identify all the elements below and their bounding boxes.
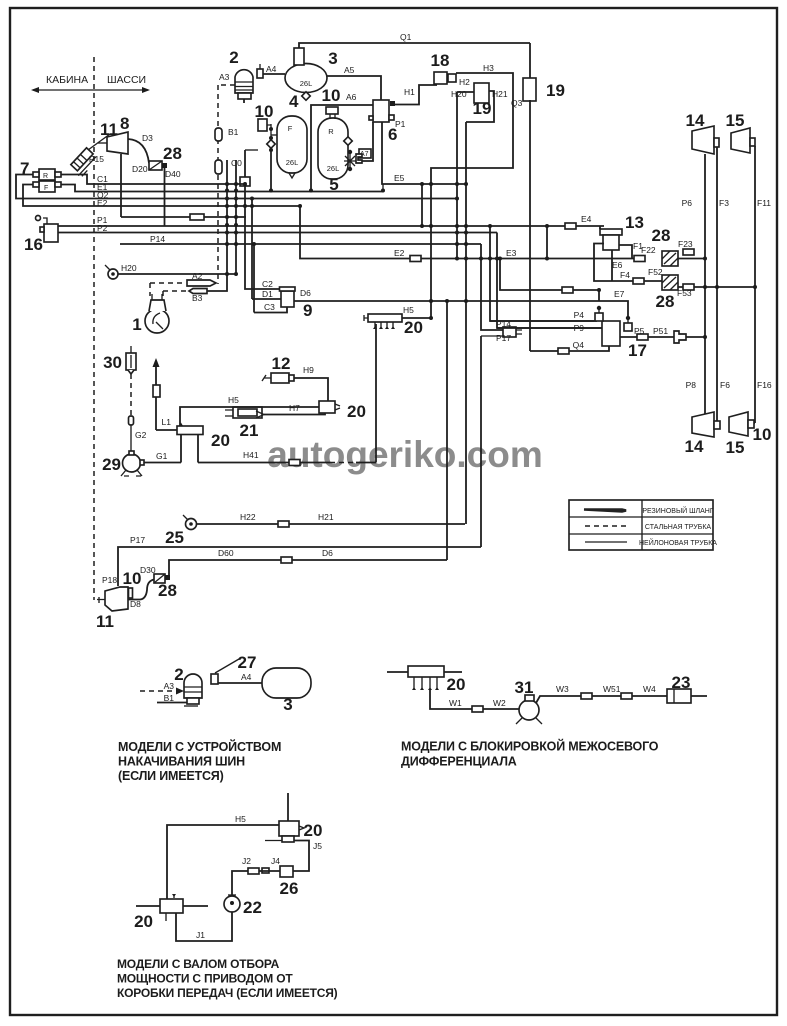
svg-text:J5: J5 [313,841,322,851]
svg-text:J4: J4 [271,856,280,866]
svg-text:19: 19 [546,81,565,100]
svg-text:H22: H22 [240,512,256,522]
svg-text:28: 28 [652,226,671,245]
svg-text:C3: C3 [264,302,275,312]
svg-text:10: 10 [255,102,274,121]
svg-text:R: R [43,173,48,180]
svg-text:(ЕСЛИ ИМЕЕТСЯ): (ЕСЛИ ИМЕЕТСЯ) [118,769,224,783]
svg-text:3: 3 [283,695,292,714]
svg-text:12: 12 [272,354,291,373]
svg-text:13: 13 [625,213,644,232]
svg-text:11: 11 [96,612,114,631]
svg-text:F4: F4 [620,270,630,280]
svg-text:P17: P17 [496,333,511,343]
svg-text:W51: W51 [603,684,621,694]
svg-text:F23: F23 [678,239,693,249]
svg-text:E6: E6 [612,260,623,270]
svg-text:W2: W2 [493,698,506,708]
svg-text:E2: E2 [394,248,405,258]
svg-text:НАКАЧИВАНИЯ ШИН: НАКАЧИВАНИЯ ШИН [118,755,245,769]
svg-text:1: 1 [132,315,141,334]
svg-text:Q1: Q1 [400,32,412,42]
svg-text:H2: H2 [459,77,470,87]
svg-text:G1: G1 [156,451,168,461]
svg-text:14: 14 [685,437,704,456]
svg-text:НЕЙЛОНОВАЯ ТРУБКА: НЕЙЛОНОВАЯ ТРУБКА [639,538,717,547]
svg-text:H21: H21 [318,512,334,522]
svg-text:H20: H20 [451,89,467,99]
svg-text:15: 15 [726,111,745,130]
svg-text:МОДЕЛИ С БЛОКИРОВКОЙ МЕЖОСЕВОГ: МОДЕЛИ С БЛОКИРОВКОЙ МЕЖОСЕВОГО [401,739,659,754]
svg-text:D20: D20 [132,164,148,174]
svg-text:МОДЕЛИ С УСТРОЙСТВОМ: МОДЕЛИ С УСТРОЙСТВОМ [118,739,281,754]
svg-text:H7: H7 [289,403,300,413]
svg-text:23: 23 [672,673,691,692]
svg-text:30: 30 [103,353,122,372]
svg-text:6: 6 [388,125,397,144]
svg-text:МОЩНОСТИ С ПРИВОДОМ ОТ: МОЩНОСТИ С ПРИВОДОМ ОТ [117,972,293,986]
svg-text:P9: P9 [574,323,585,333]
svg-text:P4: P4 [574,310,585,320]
svg-text:F22: F22 [641,245,656,255]
svg-text:КОРОБКИ ПЕРЕДАЧ (ЕСЛИ ИМЕЕТСЯ): КОРОБКИ ПЕРЕДАЧ (ЕСЛИ ИМЕЕТСЯ) [117,986,338,1000]
svg-text:ДИФФЕРЕНЦИАЛА: ДИФФЕРЕНЦИАЛА [401,755,517,769]
svg-text:10: 10 [753,425,772,444]
svg-text:B1: B1 [164,693,175,703]
svg-text:28: 28 [163,144,182,163]
svg-text:D8: D8 [130,599,141,609]
svg-text:25: 25 [165,528,184,547]
svg-text:20: 20 [347,402,366,421]
svg-text:29: 29 [102,455,121,474]
svg-text:H5: H5 [403,305,414,315]
svg-text:2: 2 [229,48,238,67]
svg-text:F: F [288,124,293,133]
svg-text:G2: G2 [135,430,147,440]
svg-text:26: 26 [280,879,299,898]
svg-text:A5: A5 [344,65,355,75]
svg-text:W4: W4 [643,684,656,694]
svg-text:A3: A3 [219,72,230,82]
svg-text:28: 28 [656,292,675,311]
svg-text:P8: P8 [686,380,697,390]
svg-text:МОДЕЛИ С ВАЛОМ ОТБОРА: МОДЕЛИ С ВАЛОМ ОТБОРА [117,957,280,971]
svg-text:A6: A6 [346,92,357,102]
svg-text:E4: E4 [581,214,592,224]
svg-text:26L: 26L [327,164,340,173]
svg-text:20: 20 [211,431,230,450]
svg-text:P18: P18 [102,575,117,585]
svg-text:A4: A4 [266,64,277,74]
svg-text:РЕЗИНОВЫЙ ШЛАНГ: РЕЗИНОВЫЙ ШЛАНГ [642,506,714,515]
svg-text:H21: H21 [492,89,508,99]
svg-text:F: F [44,185,48,192]
svg-text:F53: F53 [677,288,692,298]
svg-text:D60: D60 [218,548,234,558]
svg-text:18: 18 [431,51,450,70]
svg-text:2: 2 [174,665,183,684]
svg-text:F16: F16 [757,380,772,390]
svg-text:Q3: Q3 [511,98,523,108]
svg-text:autogeriko.com: autogeriko.com [267,434,543,475]
svg-text:20: 20 [304,821,323,840]
svg-text:17: 17 [628,341,647,360]
svg-text:L1: L1 [162,417,172,427]
svg-text:28: 28 [158,581,177,600]
svg-text:D40: D40 [165,169,181,179]
svg-text:31: 31 [515,678,534,697]
svg-text:A3: A3 [164,681,175,691]
svg-text:СТАЛЬНАЯ ТРУБКА: СТАЛЬНАЯ ТРУБКА [645,524,712,531]
svg-text:F3: F3 [719,198,729,208]
svg-text:B1: B1 [228,127,239,137]
svg-text:14: 14 [686,111,705,130]
svg-text:26L: 26L [300,79,313,88]
svg-text:F11: F11 [757,198,771,208]
svg-text:H1: H1 [404,87,415,97]
svg-text:16: 16 [24,235,43,254]
svg-text:4: 4 [289,92,299,111]
svg-text:P2: P2 [97,223,108,233]
svg-text:20: 20 [404,318,423,337]
svg-text:F52: F52 [648,267,663,277]
svg-text:22: 22 [243,898,262,917]
svg-text:H3: H3 [483,63,494,73]
svg-text:20: 20 [447,675,466,694]
svg-text:D6: D6 [300,288,311,298]
svg-text:E7: E7 [614,289,625,299]
svg-text:C2: C2 [262,279,273,289]
svg-text:15: 15 [726,438,745,457]
svg-text:20: 20 [134,912,153,931]
svg-text:E5: E5 [394,173,405,183]
svg-text:F6: F6 [720,380,730,390]
svg-text:J1: J1 [196,930,205,940]
svg-text:W1: W1 [449,698,462,708]
svg-text:H5: H5 [235,814,246,824]
svg-text:Q4: Q4 [573,340,585,350]
svg-text:11: 11 [100,120,118,139]
svg-text:10: 10 [123,569,142,588]
svg-text:W3: W3 [556,684,569,694]
svg-text:E3: E3 [506,248,517,258]
svg-text:P14: P14 [150,234,165,244]
svg-text:R: R [328,127,334,136]
svg-text:H20: H20 [121,263,137,273]
svg-text:P17: P17 [130,535,145,545]
svg-text:J2: J2 [242,856,251,866]
svg-text:8: 8 [120,114,129,133]
svg-text:H5: H5 [228,395,239,405]
svg-text:A4: A4 [241,672,252,682]
svg-text:26L: 26L [286,158,299,167]
svg-text:P51: P51 [653,326,668,336]
svg-text:D6: D6 [322,548,333,558]
svg-text:A2: A2 [192,271,203,281]
svg-text:D1: D1 [262,289,273,299]
svg-text:E2: E2 [97,198,108,208]
svg-text:B3: B3 [192,293,203,303]
svg-text:10: 10 [322,86,341,105]
svg-text:3: 3 [328,49,337,68]
svg-text:19: 19 [473,99,492,118]
svg-text:P15: P15 [89,154,104,164]
svg-text:P6: P6 [682,198,693,208]
svg-text:D30: D30 [140,565,156,575]
svg-text:D3: D3 [142,133,153,143]
svg-text:H9: H9 [303,365,314,375]
svg-text:H41: H41 [243,450,259,460]
svg-text:27: 27 [238,653,257,672]
svg-text:ШАССИ: ШАССИ [107,74,146,86]
svg-text:21: 21 [240,421,259,440]
svg-text:КАБИНА: КАБИНА [46,74,88,86]
svg-text:9: 9 [303,301,312,320]
